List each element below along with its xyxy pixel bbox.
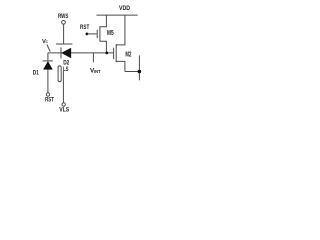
svg-text:M2: M2 (125, 51, 131, 58)
wire RWS stem (63, 24, 65, 43)
svg-text:RST: RST (80, 24, 89, 31)
wire column bus (138, 55, 140, 80)
wire LS to VLS terminal (62, 71, 64, 103)
terminal VLS (62, 103, 65, 106)
leader Vc (47, 45, 50, 52)
svg-text:RWS: RWS (58, 13, 68, 20)
wire main node (48, 52, 114, 54)
svg-text:VINT: VINT (90, 67, 101, 74)
transistor M5 (96, 30, 98, 38)
lamp LS body (58, 66, 61, 82)
leader Vint (92, 53, 94, 62)
wire RST to M5 gate (87, 33, 96, 35)
wire D1 to RST terminal (47, 69, 49, 92)
svg-text:D1: D1 (33, 69, 39, 76)
photodiode D1 (47, 53, 49, 61)
gate plate electrode (56, 43, 72, 45)
svg-text:RST: RST (45, 96, 54, 103)
diode D2 (60, 47, 62, 58)
terminal RWS (62, 20, 66, 24)
transistor M2 (113, 48, 115, 59)
svg-text:VDD: VDD (119, 5, 130, 12)
svg-text:VLS: VLS (59, 107, 69, 114)
node RST entry dot (86, 33, 89, 36)
svg-text:VC: VC (42, 39, 48, 45)
junction dot column (138, 70, 142, 74)
svg-text:M5: M5 (107, 30, 114, 37)
terminal RST (46, 93, 49, 96)
wire VDD rail (96, 14, 137, 16)
junction dot node/M5 (105, 52, 108, 55)
wire M2 source to column (125, 71, 139, 73)
